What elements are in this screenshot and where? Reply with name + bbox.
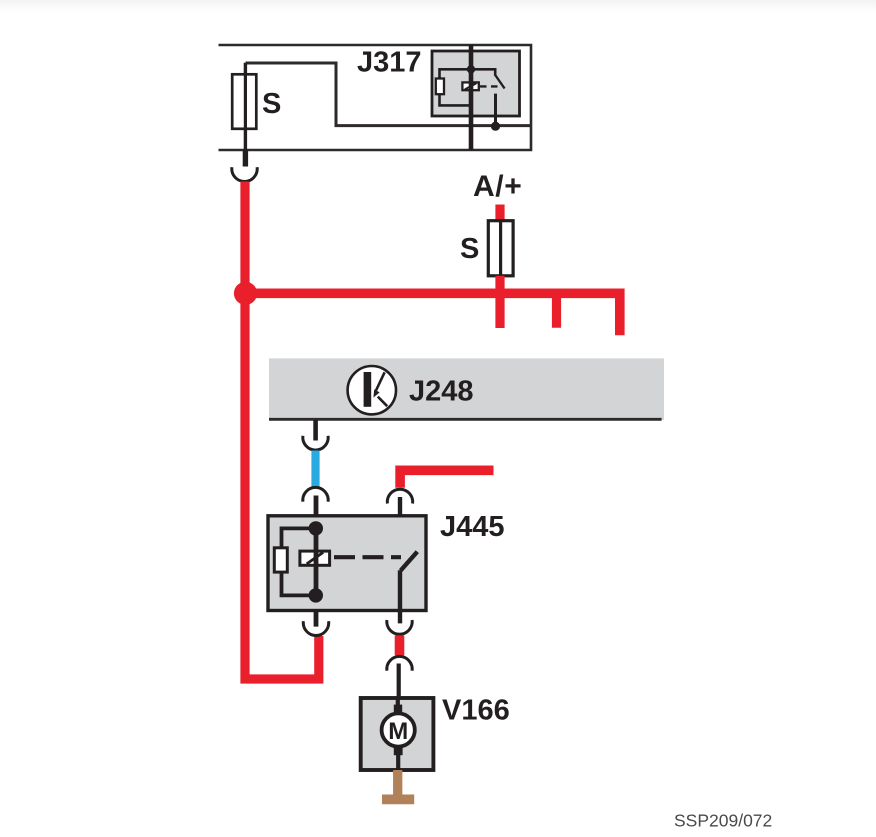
J317 coil branch wire	[440, 69, 472, 105]
J317 relay coil	[462, 82, 478, 90]
connector (J445 coil side)	[303, 487, 328, 501]
J317 switch blade	[495, 75, 504, 89]
J445 switch pin wire	[398, 497, 402, 546]
J445 coil pin wire	[314, 496, 319, 627]
wire fuse S vertical	[244, 63, 247, 150]
J317 resistor	[436, 79, 444, 95]
svg-text:J445: J445	[440, 511, 505, 543]
svg-text:V166: V166	[442, 695, 510, 727]
connector (V166 side)	[387, 656, 412, 670]
red wire to J445 switch	[400, 470, 493, 487]
red wire J445 to V166	[395, 635, 405, 655]
V166 inner pin bottom	[394, 746, 403, 755]
blue signal wire	[311, 451, 319, 488]
J317 switch leg wire	[494, 94, 497, 127]
J317 switch leg junction dot	[491, 122, 500, 131]
J248 K symbol arrow	[376, 372, 385, 390]
pump V166 body	[361, 698, 434, 770]
V166 motor circle	[382, 713, 415, 746]
J445 coil junction dots	[309, 521, 323, 535]
svg-text:S: S	[262, 88, 281, 120]
red supply wire (left main)	[245, 182, 319, 680]
connector (J445 switch side)	[387, 489, 412, 503]
J248 K symbol bar	[364, 372, 372, 407]
V166 inner pin top	[396, 698, 400, 711]
svg-text:M: M	[388, 718, 408, 745]
J317 mechanical link (dashed)	[480, 85, 499, 87]
fuse S (in fuse box)	[232, 74, 256, 129]
J317 coil junction dot	[467, 65, 475, 73]
wire from fuse S to relay contact (inner path)	[246, 63, 532, 126]
J445 coil pin wire (through coil)	[314, 528, 319, 595]
J445 resistor	[274, 548, 287, 572]
svg-text:SSP209/072: SSP209/072	[674, 811, 772, 831]
svg-text:S: S	[460, 233, 479, 265]
brown ground wire	[393, 770, 402, 795]
J445 switch blade	[401, 552, 418, 571]
control unit J248 bar	[269, 358, 664, 420]
J317 main vertical wire	[469, 45, 474, 150]
connector (below fuse S)	[232, 167, 257, 181]
J445 relay coil	[300, 551, 330, 565]
J248 K symbol circle	[348, 366, 396, 414]
connector (J445 bottom left)	[303, 621, 328, 635]
relay J445 body	[268, 516, 426, 611]
fuse S output stub	[243, 150, 248, 167]
red junction dot	[234, 282, 257, 305]
J248 output pin stub	[313, 420, 318, 441]
fuse box outline (top)	[219, 45, 532, 150]
relay J317 body	[432, 51, 520, 116]
connector (J248 side)	[303, 436, 328, 450]
J445 switch output wire	[398, 570, 402, 623]
connector (J445 bottom right)	[387, 620, 412, 634]
ground terminal bar	[382, 795, 414, 805]
svg-text:A/+: A/+	[473, 170, 522, 203]
fuse S (battery feed)	[488, 221, 513, 276]
red bus wire (node 30 rail)	[246, 293, 620, 335]
svg-text:J317: J317	[357, 47, 422, 79]
V166 pin wire	[397, 664, 401, 699]
J445 coil branch wire	[282, 528, 316, 595]
svg-text:J248: J248	[409, 376, 474, 408]
J445 mechanical link (dashed)	[334, 555, 401, 559]
red wire from A/+	[495, 205, 504, 222]
red wire fuse to bus	[495, 276, 504, 328]
red stub (middle)	[552, 293, 561, 328]
